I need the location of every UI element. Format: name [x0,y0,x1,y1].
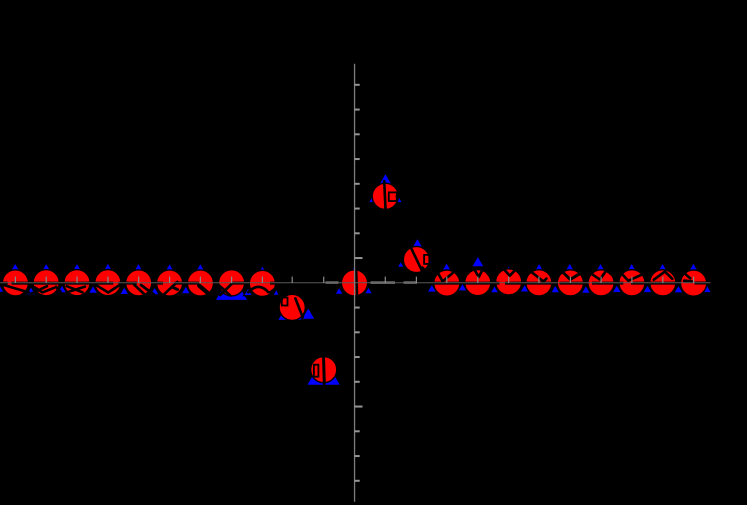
x-axis tick k=-10 [45,277,47,283]
x-axis tick k=-2 [291,277,293,283]
y-axis tick 6 [355,208,360,210]
circle C5 [496,269,522,295]
triangle A1 [368,173,402,203]
circle C0.0 [341,270,367,296]
x-axis tick k=1 [384,277,386,283]
curve oscillation stroke 28 [502,267,518,276]
curve oscillation stroke 4 [56,287,61,292]
y-axis tick 14 [355,406,363,408]
circle C3.0 [434,270,460,296]
triangle A-8 [102,263,113,273]
triangle A-3 [258,266,268,274]
x-axis tick k=11.0 [693,277,695,283]
curve oscillation stroke 5 [67,286,83,292]
triangle M1.5 [397,261,404,267]
x-axis tick k=5 [508,277,510,283]
curve oscillation stroke 32 [621,273,643,281]
curve flat dash segment 8 [157,282,163,285]
curve oscillation stroke 3 [35,287,55,292]
curve flat dash segment 16 [465,282,491,285]
circle C-10 [33,270,59,296]
curve oscillation stroke 6 [69,287,85,292]
circle C-4 [219,270,245,296]
curve flat dash segment 23 [631,282,645,285]
circle C4.0 [465,270,491,296]
y-axis tick 1 [355,84,360,86]
curve oscillation stroke 20 [356,270,357,302]
curve flat dash segment 15 [434,282,460,285]
curve oscillation stroke 26 [475,270,483,277]
curve flat dash segment 12 [231,282,246,285]
curve oscillation stroke 23 [409,244,422,272]
y-axis tick 8 [355,257,363,259]
circle C10.0 [650,270,676,296]
x-axis tick k=-4 [231,277,233,283]
triangle M10.5 [674,285,683,293]
curve flat dash segment 6 [118,282,121,285]
curve oscillation stroke 22 [397,195,404,198]
curve oscillation stroke 10 [164,282,178,295]
x-axis tick k=3.0 [446,277,448,283]
triangle A8 [595,263,606,273]
triangle A-10 [41,263,52,273]
x-axis tick k=2 [415,277,417,283]
y-axis tick 4 [355,158,360,160]
zero-line bright dash 2 [371,282,396,284]
triangle M-6.5 [150,287,159,295]
y-axis line [354,64,356,502]
triangle M-1.5 [301,307,315,319]
x-axis tick k=4.0 [477,277,479,283]
curve oscillation stroke 33 [654,272,673,280]
triangle M-8.5 [88,285,97,293]
circle C2 [403,246,429,272]
circle C11.0 [681,270,707,296]
curve flat dash segment 21 [592,282,614,285]
y-axis tick 17 [355,480,360,482]
x-axis tick k=-3 [261,277,263,283]
curve oscillation stroke 24 [422,268,426,273]
triangle A7 [564,263,575,273]
x-axis tick k=-6 [169,277,171,283]
zero-line bright dash 1 [326,282,339,284]
triangle M-7.5 [120,287,129,295]
circle C1 [372,183,398,209]
triangle A-4 [215,272,248,301]
triangle A9 [626,263,637,273]
curve flat dash segment 7 [126,282,137,285]
triangle A-11 [10,263,21,273]
curve oscillation stroke 2 [32,286,48,293]
circle C-5 [187,270,213,296]
circle C-3 [249,270,275,296]
curve oscillation stroke 17 [277,288,282,300]
curve oscillation stroke 9 [141,285,154,295]
triangle A6 [534,263,545,273]
triangle M-0.5 [335,287,344,295]
y-axis tick 16 [355,455,360,457]
circle C-1 [311,357,337,383]
curve flat dash segment 3 [34,282,60,285]
curve flat dash segment 24 [650,282,676,285]
y-axis tick 7 [355,232,360,234]
triangle M11.5 [702,285,711,293]
open square marker 4 [424,255,429,264]
triangle M7.5 [581,285,590,293]
y-axis tick 5 [355,183,360,185]
curve oscillation stroke 11 [172,287,178,290]
curve oscillation stroke 27 [486,271,492,279]
x-axis tick k=-7 [138,277,140,283]
curve flat dash segment 25 [695,282,708,285]
open square marker 2 [314,365,319,377]
triangle A-6 [164,263,175,273]
zero-line bright dash 3 [404,282,418,284]
x-axis tick k=-1 [323,277,325,283]
curve flat dash segment 17 [496,282,500,285]
triangle A4 [472,256,485,267]
curve flat dash segment 9 [175,282,187,285]
triangle A-5 [195,263,207,273]
triangle M9.5 [643,285,652,293]
triangle M2.5 [427,284,437,292]
curve oscillation stroke 12 [199,286,210,295]
curve flat dash segment 18 [505,282,522,285]
triangle A3 [441,262,453,273]
triangle A-1 [307,356,341,386]
x-axis line [0,282,711,284]
y-axis tick 12 [355,356,360,358]
triangle A-9 [71,263,82,273]
circle C-11 [2,270,28,296]
curve flat dash segment 14 [270,282,277,285]
curve oscillation stroke 16 [271,288,277,293]
circle C8.0 [588,270,614,296]
triangle A-7 [133,263,144,273]
curve oscillation stroke 30 [562,271,579,279]
triangle M-5.5 [181,286,190,294]
x-axis tick k=-9 [76,277,78,283]
open square marker 1 [282,298,288,306]
triangle A0 [349,266,359,275]
curve flat dash segment 5 [96,282,114,285]
triangle M-10.5 [26,287,36,295]
triangle M-2.5 [273,288,282,296]
triangle M4.5 [490,285,499,293]
curve oscillation stroke 7 [97,285,120,292]
curve oscillation stroke 35 [684,281,692,282]
circle C6.0 [526,270,552,296]
x-axis tick k=9.0 [631,277,633,283]
triangle M0.5 [364,287,372,294]
curve oscillation stroke 25 [437,272,453,282]
circle C9.0 [619,270,645,296]
triangle M-3.5 [244,288,253,296]
circle C-8 [95,270,121,296]
x-axis tick k=-8 [107,277,109,283]
curve oscillation stroke 14 [220,284,231,295]
triangle A5 [504,266,514,274]
circle C7.0 [557,270,583,296]
curve oscillation stroke 19 [322,356,326,384]
y-axis tick 10 [355,307,360,309]
curve oscillation stroke 21 [384,181,385,211]
triangle A11 [688,263,699,273]
curve oscillation stroke 15 [248,287,268,292]
triangle M3.5 [458,283,467,291]
y-axis tick 13 [355,381,360,383]
x-axis tick k=6.0 [538,277,540,283]
curve oscillation stroke 8 [134,285,146,297]
y-axis tick 3 [355,133,360,135]
curve flat dash segment 11 [215,282,218,285]
curve oscillation stroke 34 [684,273,690,279]
x-axis tick k=8.0 [600,277,602,283]
y-axis tick 15 [355,430,360,432]
curve flat dash segment 1 [2,282,8,285]
circle C-9 [64,270,90,296]
open square marker 3 [389,192,397,201]
curve flat dash segment 2 [12,282,29,285]
curve flat dash segment 19 [526,282,553,285]
circle C-7 [126,270,152,296]
circle C-2 [279,294,305,320]
x-axis tick k=-11 [14,277,16,283]
curve oscillation stroke 18 [295,298,302,317]
y-axis tick 2 [355,109,360,111]
curve flat dash segment 13 [246,282,250,285]
triangle M6.5 [551,285,560,293]
triangle M8.5 [612,285,621,293]
triangle M-9.5 [57,285,66,293]
curve flat dash segment 4 [65,282,91,285]
triangle A-2 [277,295,306,321]
triangle A2 [403,238,432,264]
triangle M5.5 [520,284,529,292]
curve oscillation stroke 31 [590,270,614,279]
curve oscillation stroke 29 [530,271,546,282]
triangle A10 [657,263,668,273]
circle C-6 [157,270,183,296]
y-axis tick 11 [355,331,360,333]
x-axis tick k=7.0 [569,277,571,283]
x-axis tick k=10.0 [662,277,664,283]
curve flat dash segment 20 [560,282,584,285]
triangle M-11.5 [0,284,4,292]
x-axis tick k=-5 [199,277,201,283]
curve flat dash segment 10 [187,282,199,285]
curve flat dash segment 22 [619,282,623,285]
curve oscillation stroke 1 [2,285,29,293]
curve oscillation stroke 13 [218,284,230,295]
